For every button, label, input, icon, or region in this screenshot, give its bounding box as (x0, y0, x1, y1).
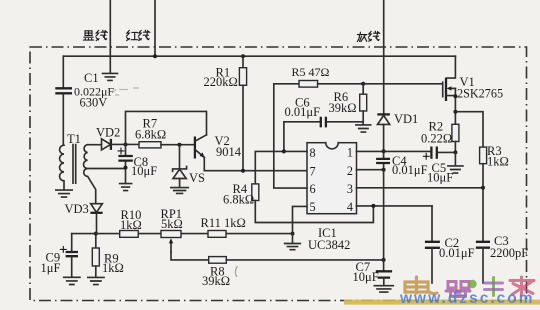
ground: T1 primary (56, 190, 72, 197)
wire: pin6 net (274, 84, 307, 188)
wire: secondary tap to C8 (88, 168, 126, 170)
svg-text:7: 7 (310, 165, 316, 179)
svg-text:10μF: 10μF (131, 164, 157, 178)
wire: pin1 net (357, 150, 432, 152)
wire: R7 to base (161, 144, 194, 146)
wire: pin4 net (357, 205, 433, 207)
ground: VS (171, 188, 188, 194)
diode VD2 (102, 139, 140, 150)
node: signal ground junction (291, 232, 295, 236)
svg-text:www.dzsc.com: www.dzsc.com (399, 290, 535, 307)
zener VS (173, 145, 187, 187)
label 红线 (red wire) (126, 30, 149, 40)
transformer T1 core (73, 145, 76, 184)
svg-text:1kΩ: 1kΩ (120, 218, 142, 232)
scan smudge near R8 (235, 266, 237, 277)
svg-text:10μF: 10μF (353, 270, 379, 284)
wire: pin8 net (255, 151, 307, 184)
wire: pin7 net (204, 170, 307, 172)
capacitor C4 (376, 151, 390, 170)
watermark logo (344, 277, 540, 307)
resistor R2 (452, 124, 459, 152)
svg-text:6.8kΩ: 6.8kΩ (135, 127, 166, 141)
node: C8/T1-tap junction (124, 166, 128, 170)
diode VD3 (90, 204, 102, 234)
ground: black-wire earth (103, 73, 118, 80)
resistor R5 (274, 81, 363, 88)
label 灰线 (gray wire) (357, 31, 380, 41)
svg-text:220kΩ: 220kΩ (204, 75, 238, 89)
transformer T1 secondary winding (84, 145, 96, 204)
wire: R3 top link (455, 112, 483, 147)
capacitor C7 (376, 260, 392, 285)
capacitor C5 (423, 147, 455, 160)
wire: divider rail (72, 233, 293, 235)
wire: left branch upper lead (62, 56, 64, 87)
transistor V2 (195, 135, 207, 171)
svg-text:R5 47Ω: R5 47Ω (292, 65, 330, 79)
capacitor C1 (55, 88, 72, 93)
node: VD3/R9/R10 junction (94, 232, 98, 236)
svg-text:UC3842: UC3842 (308, 238, 350, 252)
node: R1/pin7 junction (241, 169, 245, 173)
svg-text:9014: 9014 (216, 145, 242, 159)
wire: pin2 net (357, 169, 384, 171)
resistor R9 (92, 234, 99, 277)
svg-text:1kΩ: 1kΩ (487, 155, 509, 169)
ground: C7 (374, 286, 393, 292)
svg-text:2: 2 (347, 164, 353, 178)
svg-text:10μF: 10μF (427, 170, 453, 184)
svg-text:630V: 630V (80, 96, 108, 110)
ground: pin5 (285, 234, 301, 250)
wire: black mains lead-in (109, 0, 111, 73)
node: R8/C7/pin2 junction (382, 258, 386, 262)
resistor R6 (360, 84, 367, 125)
node: VD2 cathode junction (124, 143, 128, 147)
wire: collector feedback loop (126, 111, 207, 144)
svg-text:39kΩ: 39kΩ (202, 274, 230, 288)
svg-text:4: 4 (347, 200, 353, 214)
capacitor C2 (425, 206, 440, 283)
resistor R8 (209, 257, 384, 264)
ground: R9 (88, 277, 104, 284)
svg-text:0.01μF: 0.01μF (392, 163, 428, 177)
svg-text:0.01μF: 0.01μF (285, 105, 321, 119)
node: R5/R6/gate junction (361, 82, 365, 86)
transformer T1 primary winding (60, 145, 64, 189)
node: C4/pin2 junction (382, 168, 386, 172)
node: red-wire junction (153, 54, 157, 58)
svg-text:2SK2765: 2SK2765 (457, 86, 503, 100)
resistor R7 (139, 142, 161, 148)
ground: R2/C5 (448, 152, 463, 173)
wire: secondary top lead (88, 144, 102, 146)
node: base/VS junction (178, 143, 182, 147)
svg-text:6: 6 (310, 182, 316, 196)
svg-text:C1: C1 (84, 71, 99, 85)
svg-text:VD2: VD2 (96, 126, 120, 140)
svg-text:R11 1kΩ: R11 1kΩ (201, 216, 246, 230)
node: C6/pin8 junction (282, 149, 286, 153)
resistor R11 (208, 231, 226, 238)
enclosure dash-dot border (30, 47, 527, 301)
resistor R10 (120, 231, 139, 238)
ground: C8 (120, 184, 132, 191)
resistor R3 (480, 147, 487, 188)
node: VD1/C4/pin1 junction (382, 149, 386, 153)
wire: pin5 net (293, 206, 308, 233)
ground: R6/C6 (356, 125, 371, 132)
capacitor C6 (284, 117, 363, 152)
IC1 UC3842 body (307, 141, 357, 214)
resistor R4 (252, 184, 374, 223)
wire: wiper to R8 (171, 252, 209, 260)
wire: pin2 feedback drop (383, 170, 385, 260)
capacitor C3 (476, 188, 490, 283)
ground: C9 (64, 277, 80, 284)
svg-text:T1: T1 (67, 132, 81, 146)
svg-text:3: 3 (347, 182, 353, 196)
svg-text:5kΩ: 5kΩ (161, 217, 183, 231)
svg-text:VD1: VD1 (394, 112, 418, 126)
wire: C1 to T1 primary (62, 94, 64, 145)
capacitor C8 (118, 145, 133, 183)
node: R1 top junction (241, 54, 245, 58)
wire: gate net (363, 83, 442, 85)
wire: gray lead-in (383, 0, 385, 114)
svg-text:0.22Ω: 0.22Ω (421, 131, 452, 145)
wire: top supply rail (63, 55, 455, 57)
svg-text:0.01μF: 0.01μF (439, 246, 475, 260)
svg-text:8: 8 (310, 146, 316, 160)
svg-text:6.8kΩ: 6.8kΩ (223, 192, 254, 206)
svg-text:1μF: 1μF (41, 261, 61, 275)
svg-text:39kΩ: 39kΩ (329, 101, 357, 115)
svg-text:VS: VS (189, 171, 205, 185)
svg-text:VD3: VD3 (65, 202, 89, 216)
svg-text:2200pF: 2200pF (490, 246, 528, 260)
wire: pin3 net (357, 187, 484, 189)
node: source/R3 junction (453, 110, 457, 114)
svg-text:1kΩ: 1kΩ (102, 261, 124, 275)
potentiometer RP1 (161, 231, 181, 252)
node: R4/pin4 junction (371, 204, 375, 208)
svg-text:5: 5 (310, 200, 316, 214)
scan smudge near C1 (113, 88, 140, 95)
node: V1 source junction (453, 94, 457, 98)
wire: red lead-in (154, 0, 156, 56)
resistor R1 (239, 56, 246, 171)
node: R2/C5 ground junction (453, 150, 457, 154)
svg-text:1: 1 (347, 146, 353, 160)
capacitor C9 (60, 234, 78, 277)
diode VD1 (377, 114, 390, 150)
label 黑线 (black wire) (83, 30, 107, 40)
mosfet V1 (443, 56, 456, 124)
node: R3/C3/pin3 junction (481, 186, 485, 190)
